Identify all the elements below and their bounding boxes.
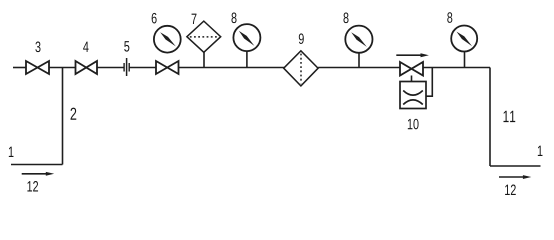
gauge 8 (third) stem xyxy=(464,52,466,68)
gauge 8 (first) stem xyxy=(246,51,248,67)
wire: pipe valve6 to filter9 xyxy=(179,67,285,69)
label 8 (second) xyxy=(343,13,348,24)
valve under gauge 6 xyxy=(156,61,179,74)
valve 3 xyxy=(26,61,49,74)
gauge 8 (second) body xyxy=(345,26,372,53)
label 7 xyxy=(192,14,197,24)
label 8 (first) xyxy=(231,13,236,24)
label 12 (right) xyxy=(505,185,516,195)
valve 10 xyxy=(400,62,423,76)
node: tee junction to line 2 xyxy=(62,68,64,165)
label 1 (left) xyxy=(9,147,14,157)
label 8 (third) xyxy=(447,12,452,23)
wire: pipe coupling5 to valve6 xyxy=(129,67,156,69)
wire: bypass from pipe down to flowmeter outlet xyxy=(426,68,432,97)
gauge 8 (second) stem xyxy=(358,53,360,68)
flow arrow 12 right xyxy=(499,176,524,178)
coupling C5 center bar xyxy=(126,58,128,76)
wire: pipe valve4 to coupling5 xyxy=(97,67,124,69)
gauge 8 (third) body xyxy=(451,26,477,52)
wire: inlet stub left xyxy=(13,67,26,69)
gauge 8 (first) body xyxy=(233,24,260,51)
label 9 xyxy=(299,33,304,44)
gauge 8 (first) needle xyxy=(239,31,255,46)
gauge 6 body xyxy=(154,26,181,53)
wire: bottom-right horizontal line 1 xyxy=(490,165,541,167)
label 1 (right) xyxy=(538,146,543,156)
flowmeter 10 venturi top arc xyxy=(403,91,423,96)
filter 7 stem xyxy=(203,52,205,67)
valve 4 xyxy=(76,61,98,74)
wire: bottom-left horizontal line 1 xyxy=(11,164,63,166)
label 5 xyxy=(124,41,129,51)
gauge 8 (third) needle xyxy=(457,32,473,47)
flowmeter 10 venturi bottom arc xyxy=(403,100,423,105)
gauge 8 (second) needle xyxy=(351,32,367,47)
wire: line 11 vertical xyxy=(489,68,491,167)
label 10 xyxy=(408,119,419,130)
gauge 6 needle xyxy=(160,32,176,46)
flowmeter 10 body xyxy=(400,82,426,109)
label 4 xyxy=(83,42,88,52)
flow arrow 12 left xyxy=(22,173,47,175)
label 3 xyxy=(35,42,40,53)
coupling C5 left bar xyxy=(123,63,125,72)
wire: valve10 to flowmeter box xyxy=(411,76,413,82)
flow direction arrow above valve 10 xyxy=(396,54,421,56)
wire: pipe valve10 to corner xyxy=(423,67,490,69)
label 6 xyxy=(152,13,157,24)
filter 9 body (in-line) xyxy=(284,51,318,86)
coupling C5 right bar xyxy=(128,63,130,72)
filter 7 element (dotted) xyxy=(190,36,218,38)
filter 7 body xyxy=(187,21,221,52)
label 11 xyxy=(504,111,516,122)
filter 9 element (dotted vertical) xyxy=(300,54,302,84)
wire: pipe valve3 to valve4 xyxy=(49,67,76,69)
label 2 xyxy=(71,108,77,120)
label 12 (left) xyxy=(27,181,38,191)
wire: pipe filter9 to valve10 xyxy=(318,67,400,69)
